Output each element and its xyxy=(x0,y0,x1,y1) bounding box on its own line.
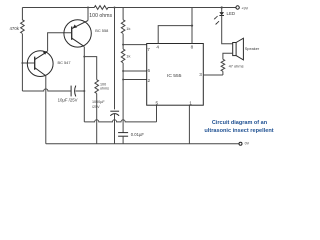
transistor Q1 lower lead xyxy=(35,68,46,76)
speaker LS1 cone xyxy=(236,38,243,60)
wire jog collector to 100 ohm resistor xyxy=(84,57,96,80)
node jog to 100 ohm xyxy=(83,56,85,58)
wire Q2 collector down to pin5 rail xyxy=(83,47,85,122)
wire pin 2 xyxy=(123,79,147,81)
svg-text:1: 1 xyxy=(189,101,192,106)
wire bottom 0V rail xyxy=(46,143,239,145)
svg-text:1000µF: 1000µF xyxy=(92,100,105,104)
resistor R5 1k lower xyxy=(121,49,125,63)
svg-text:Circuit diagram of an: Circuit diagram of an xyxy=(212,120,268,126)
svg-text:LED: LED xyxy=(227,11,236,16)
wire pin 1 to 0V rail xyxy=(188,105,190,144)
svg-text:3: 3 xyxy=(199,72,202,77)
svg-text:470k: 470k xyxy=(9,26,19,31)
capacitor C2 1000uF/25V plates xyxy=(110,111,119,116)
node pin6 tap xyxy=(122,70,124,72)
transistor Q2 base bar xyxy=(71,27,73,40)
svg-text:47 ohms: 47 ohms xyxy=(229,64,244,69)
wire pin 8 to +9V rail xyxy=(191,8,193,44)
transistor Q2 upper emitter lead with arrow toward base xyxy=(72,21,88,29)
terminal 0V xyxy=(239,142,242,145)
svg-text:ultrasonic insect repellent: ultrasonic insect repellent xyxy=(204,128,273,134)
wire rail to LED xyxy=(221,8,223,13)
wire 1000uF supply line from rail xyxy=(114,8,116,110)
svg-text:1k: 1k xyxy=(126,54,130,59)
svg-text:0V: 0V xyxy=(245,142,250,146)
svg-text:0.01µF: 0.01µF xyxy=(131,132,145,137)
wire timing line down to 0.01uF (hops pin5 rail) xyxy=(122,63,124,133)
node base of Q1 xyxy=(21,62,23,64)
node pin2 tap xyxy=(122,79,124,81)
svg-text:BC 558: BC 558 xyxy=(95,28,108,33)
svg-text:4: 4 xyxy=(156,45,159,50)
wire 470k to base node down to cap wire xyxy=(21,34,23,91)
op IC U1 555 box xyxy=(147,44,204,106)
wire Q1 emitter down to 0V rail xyxy=(45,76,47,144)
diode D1 LED triangle xyxy=(219,12,224,15)
node 1000uF on +9V rail xyxy=(114,7,116,9)
wire pin 3 to 47 ohm xyxy=(203,74,223,76)
node LED on +9V rail xyxy=(221,6,223,8)
wire control rail to Q2 collector with hops xyxy=(84,120,156,122)
svg-text:ohms: ohms xyxy=(100,87,109,91)
LED arrows xyxy=(214,16,219,25)
transistor Q1 base bar xyxy=(34,57,36,70)
wire pin 6 xyxy=(123,70,147,72)
node Q2 emitter on rail xyxy=(87,7,89,9)
svg-text:1k: 1k xyxy=(126,26,130,31)
svg-text:5: 5 xyxy=(156,101,159,106)
wire LED to speaker top xyxy=(222,16,233,44)
wire pin 7 xyxy=(123,44,147,46)
wire pin 4 up and over to pin 8 line xyxy=(158,26,192,44)
node 10uF junction on collector line xyxy=(83,90,85,92)
svg-text:10µF /25V: 10µF /25V xyxy=(58,98,78,103)
svg-text:2: 2 xyxy=(148,78,151,83)
terminal +9V xyxy=(236,6,239,9)
wire Q2 emitter to +9V rail xyxy=(87,8,89,21)
diode D1 LED cathode bar xyxy=(219,15,224,17)
wire speaker bottom to 47 ohm xyxy=(223,53,233,59)
transistor Q1 BC547 circle xyxy=(27,51,53,77)
resistor R1 470k vertical xyxy=(21,8,25,34)
node pin7 tap xyxy=(122,44,124,46)
svg-text:Speaker: Speaker xyxy=(245,46,260,51)
resistor R4 1k xyxy=(121,20,125,34)
wire 100 ohm down to 0V rail (hops pin5 rail) xyxy=(96,94,98,144)
wire base node to 10uF cap with hop over emitter line xyxy=(22,89,70,91)
wire top +9V rail right section xyxy=(110,7,236,9)
node pin4/pin8 junction xyxy=(191,25,193,27)
transistor Q2 BC558 circle xyxy=(64,20,91,47)
speaker LS1 frame xyxy=(233,43,236,56)
transistor Q1 upper lead with arrow xyxy=(35,51,48,60)
wire pin 5 to control rail xyxy=(156,105,158,122)
wire 47 ohm to pin3 wire xyxy=(222,71,224,75)
capacitor C3 0.01uF plates xyxy=(118,133,128,137)
svg-text:8: 8 xyxy=(191,45,194,50)
wire base of Q1 xyxy=(22,62,34,64)
wire between resistors xyxy=(122,34,124,49)
svg-text:/25V: /25V xyxy=(92,105,100,109)
wire 0.01uF bottom to 0V rail xyxy=(122,136,124,144)
wire 1000uF bottom to 0V rail (hops pin5 rail) xyxy=(114,114,116,144)
capacitor C1 10uF/25V plates xyxy=(71,86,76,97)
wire timing line from +9V rail xyxy=(122,8,124,20)
svg-text:6: 6 xyxy=(148,68,151,73)
resistor R 100 ohms (series, top rail) xyxy=(93,6,110,10)
resistor R3 100 ohms vertical xyxy=(95,80,99,94)
svg-text:+9V: +9V xyxy=(241,6,248,10)
svg-text:7: 7 xyxy=(147,47,150,52)
svg-text:IC 555: IC 555 xyxy=(167,73,182,79)
resistor R6 47 ohms xyxy=(221,59,225,71)
wire top +9V rail left section xyxy=(22,7,93,9)
svg-text:100 ohms: 100 ohms xyxy=(89,13,112,19)
svg-text:BC 547: BC 547 xyxy=(58,60,71,65)
transistor Q2 lower collector lead xyxy=(72,38,84,46)
wire Q1 collector up and over to Q2 base xyxy=(48,33,72,52)
wire 10uF to collector line xyxy=(75,90,84,92)
